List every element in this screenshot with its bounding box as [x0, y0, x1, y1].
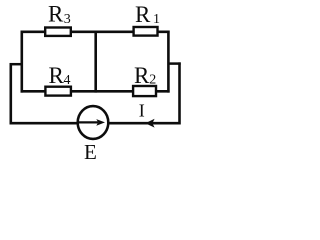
source E: [78, 106, 109, 164]
wire top horizontal: [21, 30, 170, 33]
svg-text:R: R: [135, 2, 151, 27]
svg-text:R: R: [49, 63, 65, 88]
svg-text:R: R: [134, 63, 150, 88]
wire right stub: [168, 62, 180, 65]
resistor R4: [45, 63, 71, 96]
resistor R3: [45, 2, 71, 36]
svg-text:2: 2: [149, 73, 156, 88]
wire outer-left vertical: [10, 63, 13, 125]
svg-text:1: 1: [153, 12, 160, 27]
svg-text:I: I: [139, 100, 145, 120]
wire bottom horizontal: [11, 122, 181, 125]
current arrow I: [139, 100, 155, 127]
wire inner-right vertical: [167, 31, 170, 93]
wire outer-right vertical: [178, 62, 181, 124]
svg-text:E: E: [84, 140, 97, 164]
resistor R1: [134, 2, 160, 35]
resistor R2: [133, 63, 156, 96]
wire inner-left vertical: [20, 31, 23, 93]
wire left stub: [10, 63, 22, 66]
wire center vertical: [94, 31, 97, 93]
svg-text:R: R: [48, 2, 64, 27]
svg-text:4: 4: [64, 73, 71, 88]
wire middle row horizontal: [21, 90, 170, 93]
svg-text:3: 3: [64, 12, 71, 27]
